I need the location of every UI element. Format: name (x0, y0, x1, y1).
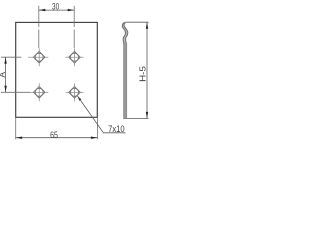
dim A: top arrowhead (4, 57, 6, 64)
hole top-left: circle (35, 53, 43, 61)
dim H-5: bottom arrowhead (146, 112, 148, 119)
dim 65: right arrowhead (91, 137, 98, 139)
dim A: bottom arrowhead (4, 86, 6, 93)
dim 65: right extension line (96, 117, 98, 139)
plate outline (front view) (16, 22, 98, 117)
svg-text:65: 65 (50, 130, 58, 141)
hole top-right: diamond (69, 51, 81, 63)
dim 65: left arrowhead (16, 137, 23, 139)
svg-text:30: 30 (52, 2, 59, 12)
hole bottom-left: centerlines (30, 83, 48, 101)
side view: S-curve grey core (123, 23, 127, 44)
dim H-5: top extension line (125, 21, 148, 23)
leader 7x10: leader line (77, 96, 125, 133)
svg-text:H-5: H-5 (137, 66, 147, 82)
dim H-5: bottom extension line (123, 117, 148, 119)
side view: S-curve top (outer line) (122, 22, 125, 43)
dim 30: dimension line (39, 9, 74, 11)
dim H-5: top arrowhead (146, 22, 148, 29)
dim 65: dimension line (16, 137, 98, 139)
dim 30: left extension line (38, 6, 40, 48)
hole bottom-right: circle (71, 88, 79, 96)
dim 30: right arrowhead (68, 9, 75, 11)
dim H-5: dimension line (146, 22, 148, 118)
svg-text:A: A (0, 72, 7, 78)
hole top-left: diamond (33, 51, 45, 63)
hole top-right: centerlines (66, 48, 84, 66)
dim A: upper extension line (1, 56, 21, 58)
dim 30: left arrowhead (39, 9, 46, 11)
hole top-left: centerlines (28, 48, 48, 66)
hole bottom-right: centerlines (66, 83, 84, 101)
hole top-right: circle (71, 53, 79, 61)
dim 30: right extension line (73, 6, 75, 48)
hole bottom-left: diamond (33, 87, 45, 99)
side view: S-curve top (inner line) (124, 23, 128, 44)
side view: plate strip (edge-on, grey band) (123, 43, 127, 119)
svg-text:7x10: 7x10 (108, 124, 125, 134)
leader 7x10: arrowhead at hole (77, 96, 81, 101)
dim A: dimension line (5, 57, 7, 92)
dim 65: left extension line (15, 118, 17, 140)
dim A: lower extension line (1, 91, 30, 93)
hole bottom-right: diamond (69, 87, 81, 99)
hole bottom-left: circle (35, 88, 43, 96)
